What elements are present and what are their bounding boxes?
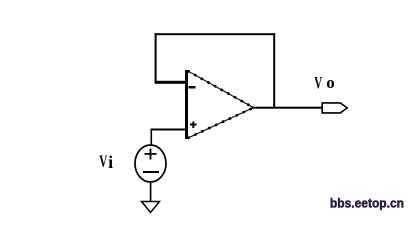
- voltage source Vi: [135, 145, 166, 182]
- wire output: [252, 107, 323, 109]
- svg-text:V: V: [99, 152, 107, 171]
- source plus sign: [145, 149, 157, 160]
- output port symbol: [322, 103, 347, 113]
- ground: [142, 202, 160, 213]
- wire noninverting input horizontal: [151, 129, 186, 131]
- wire feedback right vertical: [273, 33, 275, 108]
- op-amp noninverting input plus label: [190, 122, 197, 129]
- wire feedback top horizontal: [155, 33, 276, 35]
- op-amp inverting input minus label: [189, 86, 196, 89]
- source minus sign: [143, 171, 159, 173]
- svg-text:i: i: [108, 152, 113, 172]
- svg-text:bbs.eetop.cn: bbs.eetop.cn: [330, 196, 404, 210]
- wire source top vertical: [151, 129, 153, 146]
- label Vo: [314, 73, 335, 93]
- svg-text:V: V: [314, 74, 322, 93]
- op-amp U1: [185, 70, 254, 139]
- wire feedback left vertical: [155, 33, 157, 83]
- wire inverting input stub: [155, 81, 187, 84]
- wire source to ground: [150, 182, 152, 202]
- svg-text:o: o: [326, 73, 335, 92]
- label Vi: [99, 152, 113, 172]
